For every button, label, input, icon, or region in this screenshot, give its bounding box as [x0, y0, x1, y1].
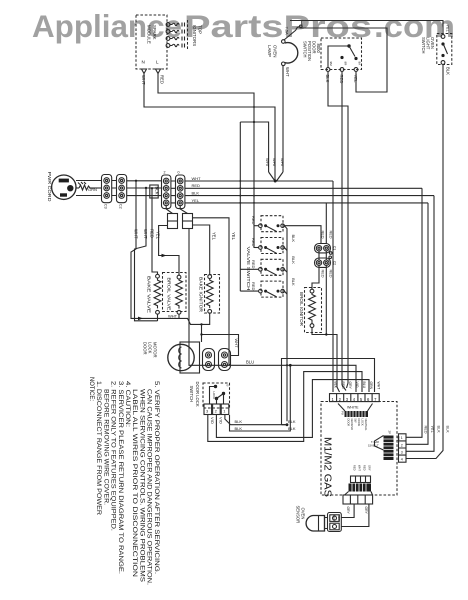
wire valve top bus to connector C1	[284, 226, 321, 244]
svg-text:RED: RED	[160, 75, 165, 84]
board header WHITE	[338, 404, 373, 418]
junction BLU riser	[289, 364, 292, 367]
wire lock sw pin3 VIO y437 to pin5	[208, 372, 362, 442]
wire light switch BLK long drop	[406, 64, 443, 458]
wire WHT bus drop to pin1	[332, 181, 334, 392]
svg-text:8000: 8000	[316, 44, 321, 54]
svg-text:BLK: BLK	[192, 191, 200, 196]
door lock switch S8	[189, 382, 230, 409]
junction dot motor WHT	[200, 333, 202, 335]
svg-text:BLK: BLK	[235, 419, 243, 424]
svg-text:VIO: VIO	[210, 417, 215, 424]
svg-text:RED: RED	[424, 426, 428, 434]
svg-text:RED: RED	[353, 465, 357, 471]
labels RED around connectors	[321, 231, 333, 278]
wire plug line 1	[76, 180, 102, 182]
P4 wire BLK	[406, 196, 434, 452]
wire valve return bus	[158, 313, 210, 324]
junction WHT drop 1	[135, 180, 137, 182]
svg-text:BLK: BLK	[291, 278, 296, 286]
spark module spade terminal L	[156, 69, 161, 74]
junction valve BLK / y421	[286, 423, 289, 426]
wire strip P2 to winding A	[166, 206, 172, 214]
wire broil ignitor return	[312, 328, 340, 393]
wire door sw RED down	[342, 71, 346, 390]
svg-text:0: 0	[178, 171, 180, 175]
svg-text:N: N	[142, 60, 145, 65]
svg-text:RED: RED	[321, 270, 325, 278]
transformer T1 winding A	[168, 214, 178, 229]
junction WHT V-merge	[269, 65, 283, 183]
svg-text:RED: RED	[329, 231, 333, 239]
wire RED to bake valve	[152, 188, 158, 274]
svg-text:RED: RED	[192, 183, 201, 188]
wire WHT bus y181	[185, 180, 333, 182]
svg-text:2: 2	[401, 443, 403, 447]
door position switch S2	[303, 38, 362, 70]
wire valve BLK common drop x287	[284, 226, 287, 422]
valve switch S6	[240, 259, 284, 275]
P1 wire labels	[334, 382, 381, 390]
svg-text:2. REFER ONLY TO FEATURES EQUI: 2. REFER ONLY TO FEATURES EQUIPPED.	[110, 381, 117, 531]
svg-text:DOOR: DOOR	[312, 41, 317, 54]
boxed label BLK	[150, 185, 160, 198]
svg-text:RED: RED	[251, 238, 256, 247]
svg-text:7.5A: 7.5A	[285, 27, 290, 36]
svg-text:4: 4	[401, 458, 403, 462]
svg-text:TOP: TOP	[198, 25, 203, 34]
svg-text:9A: 9A	[358, 62, 362, 66]
wire y421 riser to pin7	[282, 359, 375, 425]
svg-text:WHT: WHT	[272, 158, 277, 168]
wire C1 to C2 link	[319, 251, 326, 260]
svg-text:MOTOR: MOTOR	[152, 342, 157, 358]
wire YEL bus y202.9	[185, 202, 428, 204]
svg-text:BLK: BLK	[235, 426, 243, 431]
svg-text:4. CAUTION:: 4. CAUTION:	[124, 381, 131, 427]
power cord plug P0	[52, 175, 76, 199]
svg-text:GROUND: GROUND	[350, 419, 354, 431]
oven sensor RT1	[296, 506, 328, 532]
svg-text:C2: C2	[119, 204, 123, 209]
svg-text:L: L	[156, 60, 159, 65]
wire x329 RED drop	[325, 203, 327, 335]
arrowhead on WHT return	[138, 317, 143, 321]
junction dot valve return	[200, 323, 202, 325]
svg-text:WHT: WHT	[376, 382, 380, 390]
svg-text:DOOR: DOOR	[357, 419, 361, 427]
svg-text:5. VERIFY PROPER OPERATION AFT: 5. VERIFY PROPER OPERATION AFTER SERVICI…	[153, 381, 160, 574]
svg-text:LOCK: LOCK	[147, 342, 152, 354]
svg-text:POSITION: POSITION	[307, 41, 312, 61]
terminal strip P2 (4 pole)	[162, 171, 171, 209]
svg-text:SWITCH: SWITCH	[303, 41, 308, 58]
label PWR CORD	[47, 172, 52, 202]
wire top bus y20.5	[290, 21, 443, 35]
connector P4 pins	[399, 434, 407, 462]
ignitor connector C2	[315, 256, 337, 267]
svg-text:WHT: WHT	[280, 158, 285, 168]
junction RED tap	[151, 187, 153, 189]
bake valve R1	[147, 274, 161, 314]
svg-text:GRY: GRY	[346, 507, 350, 515]
svg-text:SWITCH: SWITCH	[421, 37, 426, 54]
svg-text:BROIL IGNITOR: BROIL IGNITOR	[299, 292, 304, 326]
label OVEN LAMP	[267, 45, 278, 57]
wire lock sw pin1 BLK upper	[225, 415, 287, 425]
svg-text:NEUTRAL: NEUTRAL	[364, 419, 368, 432]
svg-text:PWR CORD: PWR CORD	[47, 172, 52, 202]
connector P1 row	[330, 394, 380, 402]
svg-text:GRN: GRN	[369, 382, 373, 390]
ignitor connector C1	[315, 244, 337, 255]
valve switch S5	[251, 238, 284, 254]
svg-text:3: 3	[401, 450, 403, 454]
wire door sw BLK down	[328, 71, 348, 388]
svg-text:SENSOR: SENSOR	[296, 506, 301, 524]
svg-text:WHITE: WHITE	[347, 405, 359, 409]
door lock motor connector A	[203, 349, 215, 371]
wire WHT to door lock motor	[201, 324, 203, 342]
P4 wire RED	[406, 188, 422, 437]
watermark AppliancePartsPros.com	[32, 8, 455, 44]
wire WHT U segment y122	[240, 122, 268, 172]
junction broil/x329	[325, 333, 327, 335]
ignitor electrode gaps	[182, 20, 188, 49]
spark module output terminals	[166, 23, 170, 48]
svg-text:2: 2	[164, 171, 166, 175]
P4 wire YEL	[406, 203, 428, 444]
svg-text:CAN CAUSE IMPROPER AND DANGERO: CAN CAUSE IMPROPER AND DANGEROUS OPERATI…	[146, 389, 153, 585]
wire C2 to broil ignitor	[312, 265, 319, 289]
connector P3 shell	[345, 484, 373, 496]
wire winding B bottom BLU drop	[189, 229, 356, 393]
svg-text:GRN: GRN	[88, 187, 97, 192]
svg-text:VIO: VIO	[218, 417, 223, 424]
board connector P2 flare	[368, 431, 400, 461]
fuse 7.5A with diagonal	[284, 25, 302, 40]
connector P3 socket row	[343, 495, 373, 504]
svg-text:BLK: BLK	[288, 426, 296, 431]
wire lock sw pin2 VIO y443.5 to pin6	[216, 380, 369, 438]
broil valve R2	[163, 273, 187, 315]
svg-text:BEFORE REMOVING WIRE COVER.: BEFORE REMOVING WIRE COVER.	[102, 389, 109, 505]
svg-text:BROIL VALVE: BROIL VALVE	[167, 278, 172, 311]
junction dot y122/x254	[253, 121, 255, 123]
bake ignitor R3	[199, 275, 220, 314]
svg-text:BLK: BLK	[334, 382, 338, 389]
svg-text:YEL: YEL	[446, 25, 450, 32]
oven light switch S3	[421, 25, 452, 65]
svg-text:OVEN: OVEN	[301, 508, 306, 520]
valve switch S7	[240, 281, 284, 297]
svg-text:YEL: YEL	[353, 75, 358, 84]
svg-text:VALVE SWITCH: VALVE SWITCH	[246, 247, 251, 291]
terminal strip P8 (4 pole)	[176, 171, 185, 209]
wire plug line 3	[76, 195, 102, 197]
wire strip P8 to winding B	[180, 206, 187, 214]
connector P3 pins row	[351, 465, 372, 483]
svg-text:RED: RED	[329, 270, 333, 278]
svg-text:RED: RED	[251, 216, 256, 225]
svg-text:YEL: YEL	[231, 232, 236, 241]
svg-text:WHT: WHT	[234, 339, 239, 349]
svg-text:WHT: WHT	[358, 465, 362, 471]
svg-text:OVEN: OVEN	[430, 37, 435, 49]
svg-text:WHT: WHT	[192, 176, 202, 181]
wire motor WHT riser	[202, 335, 239, 356]
svg-text:YEL: YEL	[192, 198, 200, 203]
label TOP IGNITORS	[192, 25, 203, 46]
wire winding B lower right YEL drop x209.5 (bake ignitor feed)	[193, 225, 210, 275]
svg-text:DOOR: DOOR	[142, 342, 147, 355]
svg-text:BLK: BLK	[291, 235, 296, 243]
valve switch S4	[251, 216, 284, 232]
terminal strip C3 (3 pole)	[102, 175, 112, 209]
svg-text:RED: RED	[341, 382, 345, 390]
svg-text:SWITCH: SWITCH	[189, 386, 194, 403]
svg-text:BAKE IGNITOR: BAKE IGNITOR	[199, 277, 204, 312]
svg-text:C3: C3	[104, 204, 108, 209]
wire winding B upper right YEL drop x224	[193, 218, 231, 365]
svg-text:M1/M2 GAS: M1/M2 GAS	[322, 437, 333, 497]
notice text block	[88, 377, 160, 585]
svg-text:YEL: YEL	[212, 232, 217, 241]
svg-text:9M: 9M	[329, 62, 333, 67]
svg-text:BLK: BLK	[437, 426, 441, 434]
svg-text:DOOR LOCK: DOOR LOCK	[195, 382, 200, 407]
spark module U1	[136, 15, 167, 69]
svg-text:P9: P9	[341, 411, 345, 415]
svg-text:RED: RED	[363, 465, 367, 471]
svg-text:BLK: BLK	[155, 187, 160, 195]
svg-text:GRY: GRY	[348, 382, 352, 390]
control board dashed box M1/M2	[321, 402, 397, 496]
svg-text:RED: RED	[337, 515, 341, 522]
terminal strip C2 (3 pole)	[117, 175, 127, 209]
broil ignitor R4	[299, 288, 322, 333]
svg-text:3. SERVICER PLEASE RETURN DIAG: 3. SERVICER PLEASE RETURN DIAGRAM TO RAN…	[117, 381, 124, 574]
svg-text:GRY: GRY	[368, 465, 372, 471]
svg-text:1: 1	[401, 436, 403, 440]
label VALVE SWITCH	[246, 247, 251, 291]
svg-text:MODULE: MODULE	[147, 25, 152, 44]
svg-text:1. DISCONNECT RANGE FROM POWER: 1. DISCONNECT RANGE FROM POWER	[95, 381, 102, 515]
svg-text:RED: RED	[251, 282, 256, 291]
svg-text:5W: 5W	[354, 419, 358, 423]
wire spark N to WHT bus	[144, 74, 275, 182]
top ignitor coils	[170, 23, 179, 47]
wire P3 sq4 to sensor	[342, 504, 369, 527]
wire winding A left to broil valve (YEL)	[159, 226, 179, 276]
svg-text:OVEN: OVEN	[273, 45, 278, 57]
svg-text:IGNITORS: IGNITORS	[192, 25, 197, 46]
svg-text:BLU: BLU	[246, 360, 254, 365]
svg-text:YEL: YEL	[156, 231, 161, 240]
svg-text:LIGHT: LIGHT	[426, 37, 431, 50]
wires strip P2 to strip P8	[171, 181, 176, 203]
board header pin labels	[347, 419, 369, 432]
door lock motor connector B	[219, 349, 231, 371]
spark module spade terminal N	[142, 69, 147, 74]
wire P3 sq2 to sensor	[342, 504, 355, 518]
svg-text:SPARK: SPARK	[152, 25, 157, 40]
svg-text:WHT: WHT	[285, 67, 290, 77]
svg-text:LOCK: LOCK	[212, 392, 216, 400]
wire lock sw BLK lower y429	[230, 365, 291, 431]
svg-text:Appliance: Appliance	[32, 8, 182, 44]
wire plug line 2 + ground spring	[76, 187, 79, 189]
svg-text:NOTICE:: NOTICE:	[88, 377, 95, 401]
svg-text:WHEN SERVICING CONTROLS. WIRIN: WHEN SERVICING CONTROLS. WIRING PROBLEMS	[138, 389, 145, 582]
svg-text:2P: 2P	[388, 431, 392, 435]
junction WHT drop 2	[145, 187, 147, 189]
wire WHT drop x240	[239, 122, 241, 291]
svg-text:RED: RED	[251, 260, 256, 269]
wires strip C2 to strip P2	[127, 181, 163, 196]
svg-text:BLU: BLU	[362, 382, 366, 389]
svg-text:LAMP: LAMP	[267, 45, 272, 57]
svg-text:BLK: BLK	[446, 67, 451, 75]
svg-text:B: B	[226, 385, 230, 387]
svg-text:LABEL ALL WIRES PRIOR TO DISCO: LABEL ALL WIRES PRIOR TO DISCONNECTION	[131, 389, 138, 578]
oven sensor connector	[328, 513, 342, 532]
arrowhead on YEL broil feed	[162, 254, 167, 258]
wire second bus y28 to door switch YEL	[300, 28, 388, 92]
svg-text:BLK: BLK	[446, 426, 450, 434]
svg-text:LOCK: LOCK	[361, 419, 365, 426]
svg-text:RED: RED	[332, 515, 336, 522]
svg-text:BLK: BLK	[291, 256, 296, 264]
wires strip C3 to C2	[112, 181, 117, 196]
svg-text:DOOR: DOOR	[347, 419, 351, 427]
svg-text:VIO: VIO	[355, 382, 359, 388]
wire WHT drop2 to valve return	[135, 188, 158, 320]
wire WHT drop1 to valve return	[131, 181, 158, 319]
door position switch contacts	[326, 44, 361, 71]
transformer T1 winding B	[183, 214, 193, 229]
svg-text:GRY: GRY	[364, 507, 368, 515]
svg-text:BLK: BLK	[288, 419, 296, 424]
wire spark L to RED drop	[158, 74, 254, 249]
door lock motor M1	[142, 342, 199, 373]
door lock switch connector pins	[204, 404, 229, 415]
wire RED bus y188.3	[185, 187, 422, 189]
junction hop marks on buses	[239, 106, 288, 366]
svg-text:WHT: WHT	[265, 158, 270, 168]
svg-text:PartsPros: PartsPros	[184, 8, 372, 44]
svg-text:BAKE VALVE: BAKE VALVE	[147, 276, 152, 313]
oven lamp DS1	[282, 40, 298, 66]
svg-text:RED: RED	[321, 231, 325, 239]
label WHT x3	[265, 158, 285, 168]
wire BLK bus y195.6	[185, 195, 434, 197]
svg-text:15VB LT: 15VB LT	[368, 444, 379, 448]
svg-text:YEL: YEL	[430, 426, 434, 433]
